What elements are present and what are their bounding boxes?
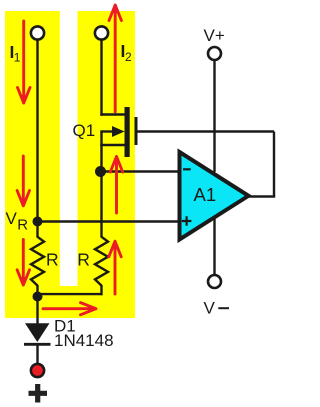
transistor Q1 channel bar	[125, 107, 130, 157]
wire: gate feedback from op-amp output	[137, 130, 274, 132]
current arrow left lower down	[17, 240, 29, 286]
wire: op-amp to V- terminal	[213, 212, 215, 275]
svg-text:2: 2	[125, 50, 132, 64]
svg-text:A1: A1	[194, 184, 217, 205]
diode D1 triangle	[25, 323, 50, 342]
transistor Q1 body arrow	[112, 126, 125, 137]
wire: diode cathode to output terminal	[36, 345, 38, 363]
svg-text:V+: V+	[204, 26, 225, 45]
svg-text:V: V	[204, 299, 216, 318]
wire: op-amp output horizontal	[248, 195, 275, 197]
current arrow right lower up	[109, 241, 121, 294]
wire: Q1 drain horizontal	[100, 113, 125, 115]
wire: Q1 body connection horizontal	[100, 130, 114, 132]
node: bottom junction dot	[33, 292, 43, 302]
node: inverting input junction dot	[95, 166, 106, 177]
current arrow left middle down	[17, 156, 29, 206]
wire: feedback right vertical	[273, 132, 275, 197]
wire: Q1 source horizontal	[100, 144, 125, 146]
wire: right resistor bottom down	[100, 285, 102, 295]
current arrow right middle up	[110, 157, 122, 214]
svg-text:R: R	[17, 217, 28, 234]
terminal: red output circle	[31, 364, 44, 377]
svg-text:R: R	[46, 250, 59, 270]
terminal: I1 input circle	[31, 26, 44, 39]
wire: I2 branch down to Q1 drain	[100, 40, 102, 116]
current arrow I1 down	[18, 21, 31, 103]
wire: V+ supply to op-amp	[213, 60, 215, 172]
wire: inverting input to op-amp	[102, 170, 181, 172]
polarity plus sign	[29, 384, 48, 403]
terminal: I2 input circle	[95, 26, 108, 39]
op-amp A1 minus input mark	[183, 168, 191, 170]
transistor Q1 gate bar	[135, 117, 138, 145]
wire: Q1 body/source tie vertical	[100, 132, 102, 147]
terminal: V- circle	[208, 275, 221, 288]
svg-text:R: R	[77, 250, 90, 270]
wire: VR node to non-inverting input	[38, 220, 181, 222]
node: VR junction dot	[33, 217, 43, 227]
resistor R (right) zigzag	[95, 237, 108, 286]
svg-text:1: 1	[14, 51, 21, 65]
wire: I1 branch down to VR node	[36, 40, 38, 222]
op-amp A1 triangle	[180, 152, 249, 240]
current arrow bottom rightward	[43, 303, 96, 315]
wire: bottom node down to diode anode	[36, 297, 38, 326]
terminal: V+ circle	[208, 47, 221, 60]
current arrow I2 up	[109, 5, 121, 112]
diode D1 cathode bar	[24, 343, 51, 346]
wire: Q1 source down through inverting-input node to right resistor	[100, 145, 102, 238]
highlight: yellow current path	[5, 11, 135, 318]
wire: left resistor bottom to bottom node	[36, 285, 38, 297]
wire: VR node down to left resistor top	[36, 222, 38, 238]
svg-text:Q1: Q1	[73, 121, 96, 140]
svg-text:1N4148: 1N4148	[54, 331, 114, 350]
resistor R (left) zigzag	[31, 237, 44, 286]
svg-text:V: V	[6, 209, 18, 228]
op-amp A1 plus input mark	[182, 216, 192, 226]
wire: bottom horizontal joining branches	[38, 293, 102, 295]
